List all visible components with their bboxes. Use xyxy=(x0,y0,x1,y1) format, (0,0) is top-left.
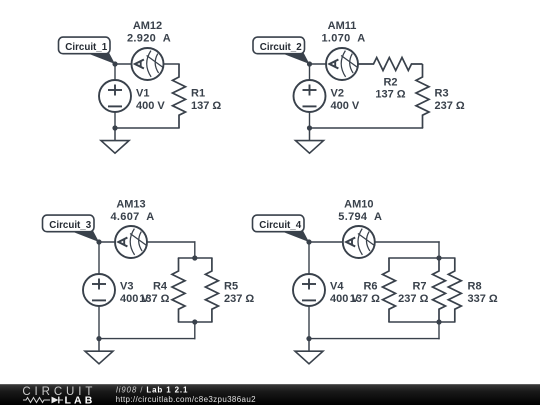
node: R6/R7/R8 top junction dot xyxy=(436,255,441,260)
wire: bottom rail of Circuit_2 xyxy=(310,127,423,129)
label R2 value xyxy=(375,76,405,100)
wire: node to ammeter AM13 left lead xyxy=(99,241,115,243)
svg-text:237 Ω: 237 Ω xyxy=(435,100,465,112)
wire: bottom bar of R4/R5 parallel pair xyxy=(179,321,212,323)
resistor R7 (237 ohm, vertical) xyxy=(433,258,446,322)
svg-text:R6: R6 xyxy=(363,281,377,293)
voltage source V4 bottom lead wire xyxy=(308,306,310,339)
resistor R4 (137 ohm, vertical) xyxy=(172,258,185,322)
svg-text:400 V: 400 V xyxy=(136,100,165,112)
voltage source V3 bottom lead wire xyxy=(98,306,100,339)
svg-text:R3: R3 xyxy=(435,88,449,100)
svg-text:R8: R8 xyxy=(468,281,482,293)
wire: top bar of R6/R7/R8 parallel set xyxy=(389,257,455,259)
label AM11 name and reading xyxy=(322,20,366,44)
resistor R2 (137 ohm, horizontal) xyxy=(359,58,423,71)
label R8 value xyxy=(468,281,498,305)
net flag Circuit_4 xyxy=(253,215,310,242)
node: Circuit_2 net junction dot xyxy=(307,61,312,66)
wire: from parallel set down to bottom rail xyxy=(438,322,440,339)
label R1 value xyxy=(191,88,221,112)
svg-text:R4: R4 xyxy=(153,281,168,293)
node: Circuit_4 net junction dot xyxy=(306,239,311,244)
label R5 value xyxy=(224,281,254,305)
wire: bottom rail of Circuit_3 xyxy=(99,338,195,340)
svg-text:337 Ω: 337 Ω xyxy=(468,293,498,305)
voltage source V1 (400 V) xyxy=(99,80,131,112)
svg-text:R1: R1 xyxy=(191,88,205,100)
voltage source V4 (400 V) xyxy=(293,274,325,306)
ammeter AM10 xyxy=(343,226,375,258)
wire: feed down into R4/R5 parallel pair xyxy=(194,242,196,258)
wire: node to ammeter AM11 left lead xyxy=(310,63,327,65)
wire: top bar of R4/R5 parallel pair xyxy=(179,257,212,259)
svg-text:AM12: AM12 xyxy=(133,20,162,32)
svg-text:2.920 A: 2.920 A xyxy=(127,32,171,44)
label V2 value xyxy=(331,88,360,112)
ground symbol of Circuit_3 xyxy=(85,339,113,364)
svg-text:R7: R7 xyxy=(412,281,426,293)
svg-text:LAB: LAB xyxy=(65,395,96,405)
wire: ammeter AM13 right lead to parallel branch xyxy=(147,241,195,243)
svg-text:Circuit_4: Circuit_4 xyxy=(259,220,301,231)
ground symbol of Circuit_2 xyxy=(296,128,324,153)
label R3 value xyxy=(435,88,465,112)
svg-text:400 V: 400 V xyxy=(331,100,360,112)
resistor R3 (237 ohm, vertical) xyxy=(416,64,429,128)
svg-text:137 Ω: 137 Ω xyxy=(139,293,169,305)
wire: bottom rail of Circuit_1 xyxy=(115,127,179,129)
ammeter AM11 xyxy=(326,48,358,80)
svg-text:237 Ω: 237 Ω xyxy=(224,293,254,305)
svg-text:Circuit_2: Circuit_2 xyxy=(260,42,302,53)
voltage source V4 top lead wire xyxy=(308,242,310,274)
svg-text:AM10: AM10 xyxy=(344,199,373,211)
resistor R5 (237 ohm, vertical) xyxy=(205,258,218,322)
node: Circuit_3 ground junction dot xyxy=(96,336,101,341)
label R7 value xyxy=(398,281,428,305)
resistor R8 (337 ohm, vertical) xyxy=(448,258,461,322)
voltage source V1 top lead wire xyxy=(114,64,116,80)
node: Circuit_1 ground junction dot xyxy=(112,125,117,130)
label V4 value xyxy=(330,281,359,305)
voltage source V1 bottom lead wire xyxy=(114,112,116,128)
voltage source V3 top lead wire xyxy=(98,242,100,274)
svg-text:V1: V1 xyxy=(136,88,149,100)
svg-text:R2: R2 xyxy=(383,76,397,88)
net flag Circuit_1 xyxy=(59,37,116,64)
resistor R1 (137 ohm, vertical) xyxy=(173,64,186,128)
svg-text:AM11: AM11 xyxy=(328,20,357,32)
svg-text:V2: V2 xyxy=(331,88,344,100)
ground symbol of Circuit_4 xyxy=(295,339,323,364)
net flag Circuit_3 xyxy=(43,215,100,242)
wire: feed down into R6/R7/R8 parallel set xyxy=(438,242,440,258)
svg-text:li908 / Lab 1 2.1: li908 / Lab 1 2.1 xyxy=(116,385,188,394)
label AM13 name and reading xyxy=(111,199,155,223)
svg-text:137 Ω: 137 Ω xyxy=(375,89,405,101)
wire: node to ammeter AM12 left lead xyxy=(115,63,132,65)
wire: node to ammeter AM10 left lead xyxy=(309,241,343,243)
label AM10 name and reading xyxy=(338,199,382,223)
svg-text:137 Ω: 137 Ω xyxy=(191,100,221,112)
svg-text:137 Ω: 137 Ω xyxy=(350,293,380,305)
svg-text:4.607 A: 4.607 A xyxy=(111,211,155,223)
svg-text:R5: R5 xyxy=(224,281,238,293)
svg-text:237 Ω: 237 Ω xyxy=(398,293,428,305)
CircuitLab logo resistor-diode glyph xyxy=(23,397,63,404)
svg-text:5.794 A: 5.794 A xyxy=(338,211,382,223)
svg-text:http://circuitlab.com/c8e3zpu3: http://circuitlab.com/c8e3zpu386au2 xyxy=(116,395,257,404)
svg-text:Circuit_3: Circuit_3 xyxy=(49,220,91,231)
ammeter AM12 xyxy=(132,48,164,80)
label AM12 name and reading xyxy=(127,20,171,44)
ammeter AM13 xyxy=(115,226,147,258)
wire: ammeter AM12 right lead to resistor R1 top xyxy=(164,63,179,65)
node: Circuit_2 ground junction dot xyxy=(307,125,312,130)
svg-text:1.070 A: 1.070 A xyxy=(322,32,366,44)
svg-text:AM13: AM13 xyxy=(116,199,145,211)
label V1 value xyxy=(136,88,165,112)
ground symbol of Circuit_1 xyxy=(101,128,129,153)
voltage source V2 (400 V) xyxy=(294,80,326,112)
label R4 value xyxy=(139,281,169,305)
node: R6/R7/R8 bottom junction dot xyxy=(436,319,441,324)
node: Circuit_3 net junction dot xyxy=(96,239,101,244)
voltage source V3 (400 V) xyxy=(83,274,115,306)
node: R4/R5 top junction dot xyxy=(192,255,197,260)
label V3 value xyxy=(120,281,149,305)
wire: bottom rail of Circuit_4 xyxy=(309,338,439,340)
node: R4/R5 bottom junction dot xyxy=(192,319,197,324)
svg-text:Circuit_1: Circuit_1 xyxy=(65,42,107,53)
net flag Circuit_2 xyxy=(253,37,310,64)
resistor R6 (137 ohm, vertical) xyxy=(383,258,396,322)
node: Circuit_4 ground junction dot xyxy=(306,336,311,341)
node: Circuit_1 net junction dot xyxy=(112,61,117,66)
label R6 value xyxy=(350,281,380,305)
wire: from parallel pair down to bottom rail xyxy=(194,322,196,339)
svg-text:V3: V3 xyxy=(120,281,133,293)
wire: ammeter AM10 right lead to parallel branch xyxy=(375,241,439,243)
voltage source V2 bottom lead wire xyxy=(309,112,311,128)
svg-text:V4: V4 xyxy=(330,281,344,293)
voltage source V2 top lead wire xyxy=(309,64,311,80)
wire: bottom bar of R6/R7/R8 parallel set xyxy=(389,321,455,323)
